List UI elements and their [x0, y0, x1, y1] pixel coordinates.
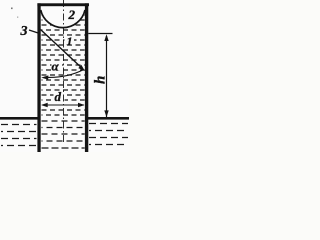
svg-text:3: 3: [20, 24, 28, 39]
svg-text:1: 1: [67, 34, 73, 48]
svg-text:α: α: [52, 59, 60, 74]
svg-text:h: h: [93, 76, 109, 84]
svg-text:d: d: [55, 89, 62, 104]
svg-text:2: 2: [68, 7, 76, 22]
